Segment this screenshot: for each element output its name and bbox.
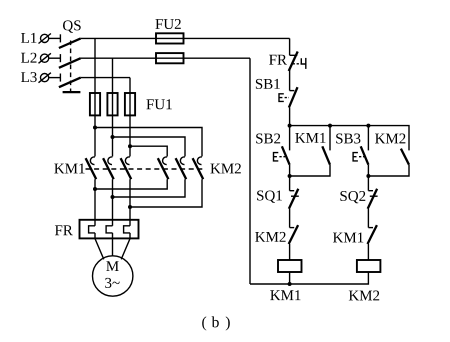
start button SB3 normally-open contact [353, 126, 368, 165]
wire L3 terminal to QS fixed contact [49, 77, 61, 79]
wire crossover phase B to KM2 pole 2 [113, 137, 186, 156]
KM2 main contact pole 1 [158, 157, 169, 179]
contactor KM1 label (main contacts) [54, 164, 84, 174]
coil KM2 label [349, 291, 379, 301]
QS handle bar [63, 91, 81, 93]
wire L1 terminal to QS fixed contact [49, 37, 61, 39]
wire SQ2 to KM1 interlock contact [367, 209, 369, 228]
FR heater element phase B [106, 226, 112, 233]
junction node phase C upper [128, 144, 132, 148]
QS pole 3 blade [59, 78, 81, 88]
stop button SB1 label [256, 79, 280, 89]
QS pole 1 blade [59, 38, 81, 48]
QS mechanical linkage dashed line [70, 41, 72, 92]
fuse FU2 element on L2 [156, 53, 184, 63]
KM2 interlock contact label [255, 232, 285, 242]
stop button SB1 normally-closed contact [279, 87, 298, 107]
limit switch SQ1 normally-closed contact [289, 189, 299, 209]
limit switch SQ1 label [257, 191, 282, 203]
wire FR contact to SB1 [289, 70, 291, 91]
wire KM2 interlock to KM1 coil [289, 244, 291, 260]
KM2 interlock normally-closed contact [289, 225, 298, 244]
junction node SB2 KM1 merge [288, 174, 292, 178]
limit switch SQ2 normally-closed contact [368, 189, 378, 209]
wire KM2 coil corner to bottom rail [250, 272, 368, 284]
fuse FU1 label [146, 99, 171, 109]
KM2 auxiliary normally-open contact branch [368, 149, 409, 176]
wire L3 phase from QS to FU1 drop [81, 77, 130, 79]
wire SB2 to lower node [289, 165, 291, 191]
QS pole 1 fixed contact tick [59, 34, 61, 42]
KM1 main contact pole 2 [103, 157, 114, 179]
motor M 3-phase circle [93, 256, 133, 296]
wire crossover phase A to KM2 pole 3 [95, 128, 202, 157]
wire L2 terminal to QS fixed contact [49, 57, 61, 59]
QS pole 2 fixed contact tick [59, 54, 61, 62]
thermal relay FR label [55, 225, 73, 235]
fuse FU2 element on L1 [156, 33, 184, 43]
contactor coil KM1 [278, 260, 302, 272]
KM1 interlock contact label [333, 233, 363, 243]
wire KM2 pole 1 return to phase A node [95, 179, 167, 189]
wire phase B below KM1 pole 2 to FR [112, 179, 114, 226]
wire FR to motor terminal V [112, 233, 114, 256]
limit switch SQ2 label [340, 191, 365, 203]
KM1 auxiliary normally-open contact branch [290, 126, 330, 176]
junction node phase A lower [93, 187, 97, 191]
contactor KM2 label (main contacts) [210, 164, 240, 174]
junction node phase C lower [128, 205, 132, 209]
contactor coil KM2 [357, 260, 381, 272]
QS pole 3 fixed contact tick [59, 74, 61, 82]
start button SB2 label [256, 134, 280, 144]
start button SB3 label [336, 134, 360, 144]
fuse FU1 element phase B [107, 93, 117, 115]
wire phase A vertical drop to FU1 [94, 38, 96, 156]
wire KM2 pole 2 return to phase B node [113, 179, 186, 197]
wire left control rail from L2 down to bottom [249, 58, 251, 284]
junction node bus at SB3 [366, 124, 370, 128]
thermal relay FR normally-closed contact [289, 52, 306, 72]
wire phase C below KM1 pole 3 to FR [129, 179, 131, 226]
fuse FU2 label [155, 19, 180, 29]
FR control contact label [269, 55, 287, 65]
KM1 main contact pole 3 [121, 157, 132, 179]
junction node phase B lower [111, 195, 115, 199]
fuse FU1 element phase C [125, 93, 135, 115]
figure caption ( b ) [202, 316, 230, 330]
wire phase B vertical drop to FU1 [112, 58, 114, 156]
wire crossover phase C to KM2 pole 1 [130, 146, 167, 156]
KM1 main contact pole 1 [86, 157, 97, 179]
coil KM1 label [270, 290, 300, 300]
wire KM1 coil to bottom rail [289, 272, 291, 284]
disconnect switch QS label [63, 20, 81, 32]
wire phase C vertical drop to FU1 [129, 78, 131, 157]
FR heater element phase C [124, 226, 130, 233]
wire L2 phase from QS through FU2 to control left rail [81, 57, 250, 59]
KM1 interlock normally-closed contact [368, 225, 377, 244]
wire KM1 interlock to KM2 coil [367, 244, 369, 260]
thermal relay FR heater box [80, 220, 139, 239]
power source terminal L3 [21, 72, 51, 83]
wire L1 phase from QS through FU2 to right rail [81, 37, 290, 39]
start button SB2 normally-open contact [274, 126, 290, 165]
FR heater element phase A [89, 226, 95, 233]
junction node SB3 KM2 merge [366, 174, 370, 178]
junction node phase A upper [93, 126, 97, 130]
QS pole 2 blade [59, 58, 81, 68]
motor letter M [106, 261, 118, 271]
KM2 main contact pole 2 [176, 157, 187, 179]
KM2 auxiliary self-lock contact label [375, 134, 405, 144]
power source terminal L2 [21, 53, 51, 64]
wire SB1 to bus node [289, 108, 291, 126]
control bus wire with corner to KM2 aux branch [290, 126, 409, 151]
wire SB3 to lower node [367, 165, 369, 191]
power source terminal L1 [21, 33, 51, 44]
junction node phase B upper [111, 135, 115, 139]
wire phase A below KM1 pole 1 to FR [94, 179, 96, 226]
wire SQ1 to KM2 interlock contact [289, 209, 291, 228]
KM1 auxiliary self-lock contact label [295, 133, 325, 143]
KM1 KM2 mechanical linkage dashed line [86, 168, 204, 170]
wire right control rail from L1 down to FR contact [289, 38, 291, 55]
wire FR to motor terminal W [121, 233, 130, 259]
wire KM2 pole 3 return to phase C node [130, 179, 202, 207]
wire FR to motor terminal U [95, 233, 104, 259]
motor 3~ marking [105, 278, 120, 288]
fuse FU1 element phase A [90, 93, 100, 115]
junction node bus at SB2 [288, 124, 292, 128]
KM2 main contact pole 3 [193, 157, 204, 179]
junction node bus at KM1 aux [328, 124, 332, 128]
junction node bottom rail at KM1 coil [288, 282, 292, 286]
